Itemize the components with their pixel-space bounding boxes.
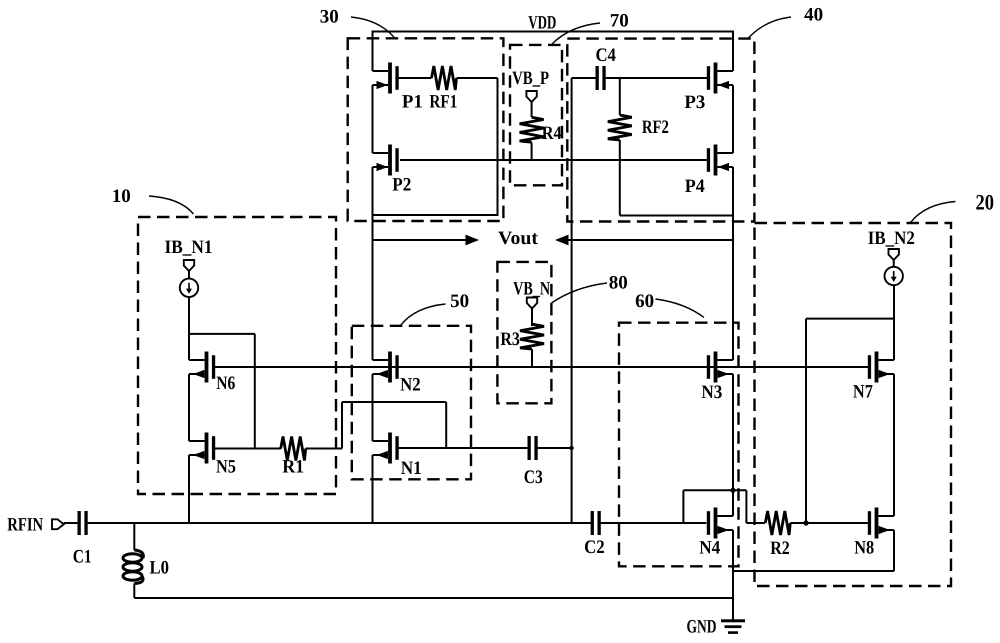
wire right chain x=733	[732, 31, 734, 72]
svg-text:40: 40	[804, 5, 823, 26]
wire N1 gate row to C3	[399, 447, 528, 449]
current source IB_N1	[188, 271, 190, 279]
resistor R2	[746, 522, 765, 524]
svg-text:R2: R2	[770, 538, 790, 559]
svg-text:Vout: Vout	[498, 228, 539, 249]
leader 30	[351, 17, 395, 39]
wire C4/C2 column	[571, 78, 573, 523]
wire VB_P bias row	[400, 159, 707, 161]
wire N5 source down	[188, 455, 190, 523]
svg-text:VB_N: VB_N	[513, 279, 550, 300]
leader 50	[401, 304, 446, 326]
leader 70	[552, 23, 600, 44]
capacitor C1	[64, 522, 78, 524]
transistor N7	[868, 352, 894, 383]
leader 10	[149, 196, 194, 214]
capacitor C4	[572, 77, 596, 79]
wire IB_N1 down	[188, 296, 190, 360]
wire RF1 to drain node	[497, 78, 499, 215]
svg-text:C3: C3	[524, 467, 543, 488]
block 30 dashed box	[348, 38, 504, 221]
transistor N6	[189, 352, 215, 383]
svg-text:IB_N1: IB_N1	[165, 237, 213, 258]
transistor P3	[707, 63, 733, 94]
svg-text:L0: L0	[150, 557, 170, 578]
svg-text:RF1: RF1	[429, 91, 457, 112]
transistor N2	[373, 352, 399, 383]
leader 40	[748, 17, 791, 39]
svg-text:P4: P4	[685, 176, 705, 197]
svg-text:N2: N2	[400, 374, 421, 395]
wire input row	[88, 522, 591, 524]
transistor N1	[373, 433, 399, 464]
capacitor C3	[528, 436, 538, 460]
svg-text:70: 70	[610, 10, 629, 31]
svg-text:VB_P: VB_P	[512, 68, 549, 89]
svg-text:RF2: RF2	[642, 117, 669, 138]
svg-text:P3: P3	[684, 92, 705, 113]
node dot R2-N8 junction	[803, 520, 808, 525]
transistor P2	[373, 145, 399, 176]
svg-text:C1: C1	[73, 547, 92, 568]
transistor N3	[707, 352, 733, 383]
svg-text:80: 80	[609, 272, 628, 293]
wire bottom ground rail	[134, 597, 733, 599]
transistor P1	[373, 63, 399, 94]
wire N6-N5	[188, 374, 190, 441]
current source IB_N2	[893, 260, 895, 268]
svg-text:60: 60	[635, 291, 654, 312]
svg-text:N7: N7	[853, 382, 873, 403]
svg-text:C2: C2	[584, 537, 605, 558]
node dot N4 loop	[730, 488, 735, 493]
leader 80	[552, 283, 608, 303]
inductor L0	[133, 523, 135, 550]
block 80 dashed box	[497, 262, 551, 403]
block 70 dashed box	[510, 45, 562, 185]
resistor R1	[215, 448, 281, 450]
wire VDD rail	[372, 31, 735, 33]
resistor RF2	[619, 78, 621, 115]
block 60 dashed box	[619, 323, 739, 567]
svg-text:RFIN: RFIN	[7, 515, 43, 536]
transistor N4	[707, 508, 733, 539]
svg-text:N8: N8	[854, 538, 874, 559]
svg-text:GND: GND	[687, 617, 717, 638]
svg-text:IB_N2: IB_N2	[868, 228, 915, 249]
block 10 dashed box	[138, 217, 336, 494]
svg-text:N3: N3	[701, 382, 722, 403]
wire N6 diode loop	[189, 333, 255, 335]
node dot C3-C2 junction	[569, 446, 573, 450]
wire R1 to N1 gate bridge	[341, 402, 343, 449]
wire left chain x=372.5	[372, 31, 374, 72]
svg-text:C4: C4	[595, 45, 616, 66]
wire N4 gate-drain loop	[682, 490, 684, 523]
wire N8 source to ground	[893, 530, 895, 571]
resistor RF1	[399, 77, 432, 79]
svg-text:P1: P1	[402, 91, 423, 112]
svg-text:30: 30	[320, 7, 339, 28]
svg-text:R4: R4	[542, 123, 562, 144]
transistor P4	[707, 145, 733, 176]
transistor N5	[189, 433, 215, 464]
svg-text:50: 50	[450, 291, 469, 312]
wire IB_N2 down	[893, 285, 895, 361]
resistor R3	[531, 309, 533, 327]
svg-text:N5: N5	[216, 457, 236, 478]
block 40 dashed box	[567, 39, 754, 222]
block 50 dashed box	[352, 326, 471, 480]
wire R2 node to N7 drain	[805, 319, 807, 523]
svg-text:R1: R1	[282, 457, 304, 478]
svg-text:10: 10	[112, 186, 131, 207]
svg-text:N4: N4	[699, 538, 720, 559]
capacitor C2	[591, 511, 601, 535]
svg-text:N6: N6	[216, 373, 235, 394]
svg-text:R3: R3	[500, 329, 520, 350]
wire shared N gate row	[215, 366, 869, 368]
resistor R4	[531, 102, 533, 117]
leader 60	[656, 299, 705, 318]
wire N7-N8	[893, 374, 895, 516]
leader 20	[911, 202, 956, 223]
wire Vout right arrow	[567, 239, 733, 241]
svg-text:P2: P2	[392, 175, 411, 196]
svg-text:VDD: VDD	[528, 13, 556, 34]
svg-text:N1: N1	[401, 458, 422, 479]
svg-text:20: 20	[975, 189, 994, 214]
transistor N8	[868, 508, 894, 539]
wire Vout left arrow	[373, 239, 468, 241]
block 20 dashed box	[755, 223, 952, 586]
